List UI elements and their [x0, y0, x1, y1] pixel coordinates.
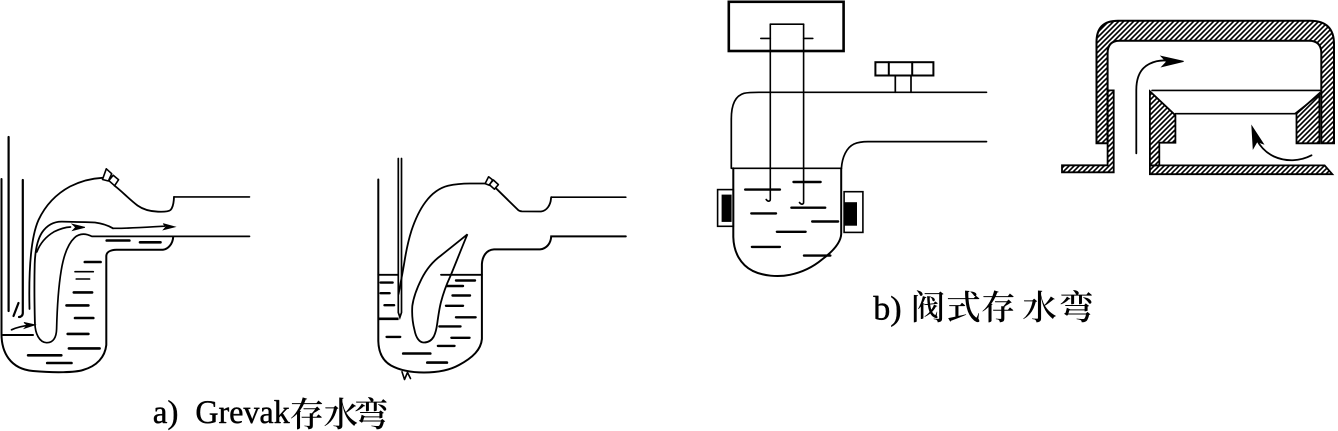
water level dashes (b)	[745, 182, 838, 256]
right clamp frame (b)	[844, 192, 863, 233]
body shoulder and outlet top line (b)	[731, 92, 986, 119]
inlet pipe walls (a2)	[398, 159, 401, 318]
left floor flange hatched (c)	[1062, 90, 1114, 172]
trap neck interior occluder (a2)	[399, 234, 468, 330]
floor base bar hatched (c)	[1150, 165, 1332, 174]
caption a cjk cun	[291, 397, 322, 429]
flow arrow shaft to outlet (a1)	[113, 226, 165, 228]
vent nub (a1)	[103, 169, 119, 186]
flow arrow head outlet (a1)	[163, 224, 174, 230]
bell dish right slope (c)	[1295, 92, 1322, 113]
overflow tube left wall (b)	[766, 24, 770, 201]
domed cover wall hatched (c)	[1097, 21, 1335, 144]
caption a latin	[154, 408, 167, 424]
center standpipe support hatched (c)	[1150, 91, 1176, 165]
vessel body outline (a1)	[2, 179, 174, 372]
valve handle divider right (b)	[911, 62, 913, 75]
top flange box (b)	[729, 2, 844, 51]
flange tick left (b)	[761, 37, 771, 39]
inflow arrow shaft (c)	[1136, 60, 1168, 153]
valve stem right (b)	[910, 76, 912, 93]
caption b cjk shui	[1023, 290, 1056, 322]
caption b cjk fa	[914, 290, 944, 322]
caption b cjk cun	[982, 290, 1013, 322]
flow arrow inside tube shaft (a1)	[37, 227, 71, 252]
trap dome right outline (a1)	[115, 186, 175, 212]
outlet elbow and bottom line (b)	[841, 142, 986, 169]
valve stem left (b)	[894, 76, 896, 93]
water level dashes (a1)	[28, 241, 160, 364]
bell dish bottom line (c)	[1175, 113, 1295, 115]
water surface line (a2)	[378, 274, 482, 276]
water line overlapping beak (a2)	[441, 274, 451, 276]
body left wall (b)	[730, 119, 732, 168]
left clamp pad (b)	[722, 195, 732, 222]
inlet pipe occluder (a2)	[398, 159, 401, 318]
caption b cjk shi	[948, 291, 980, 323]
outlet pipe top line (a1)	[174, 196, 250, 198]
outflow arrow head (c)	[1252, 126, 1263, 148]
inlet pipe splash tick (a1)	[14, 303, 19, 316]
water level dashes (a2)	[379, 281, 476, 363]
cup outline (b)	[733, 168, 841, 276]
left clamp frame (b)	[718, 190, 734, 227]
water surface line (b)	[732, 167, 842, 169]
inner siphon tube fill (a1)	[34, 222, 113, 343]
inner siphon tube right wall and outlet bottom line (a1)	[35, 234, 250, 343]
flange tick right (b)	[804, 37, 813, 39]
caption b cjk wan	[1061, 290, 1092, 322]
inlet pipe wall left (a1)	[8, 137, 10, 311]
bottom flow arrow head (a1)	[24, 323, 35, 329]
valve handle divider left (b)	[888, 62, 890, 75]
caption a cjk shui	[324, 397, 357, 429]
caption b latin	[873, 296, 889, 320]
trap dome outline (a2)	[399, 184, 486, 295]
outlet pipe top line (a2)	[551, 196, 626, 198]
overflow tube top (b)	[770, 23, 803, 25]
valve handle bar (b)	[875, 62, 933, 75]
trap dome right diagonal and hub dip (a2)	[496, 188, 551, 211]
trap neck wall right (a1)	[19, 180, 23, 317]
overflow tube right wall (b)	[800, 24, 804, 204]
inflow arrow head (c)	[1161, 56, 1183, 66]
bell dish top line (c)	[1152, 89, 1321, 91]
water surface line (a1)	[3, 334, 33, 336]
inner siphon tube beak (a2)	[412, 234, 467, 342]
caption a cjk wan	[355, 397, 386, 429]
right support block hatched (c)	[1297, 93, 1320, 143]
bottom drip nub (a2)	[402, 372, 411, 380]
right clamp pad (b)	[844, 202, 857, 226]
trap dome left outline (a1)	[29, 178, 102, 309]
vent nub (a2)	[485, 177, 498, 189]
cup body outline with outlet bottom (a2)	[378, 180, 626, 373]
flow arrow inside tube head (a1)	[73, 224, 85, 230]
bottom flow arrow shaft (a1)	[12, 325, 30, 330]
outflow arrow shaft (c)	[1257, 140, 1312, 161]
inner siphon tube left wall (a1)	[34, 222, 113, 323]
